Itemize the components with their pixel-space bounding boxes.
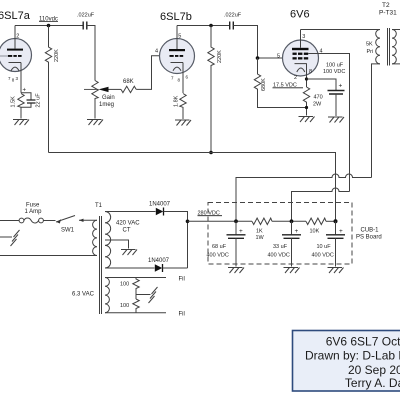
svg-text:5: 5 xyxy=(178,34,181,40)
transformer T2 secondary winding xyxy=(392,30,396,64)
svg-text:400 VDC: 400 VDC xyxy=(207,253,229,259)
svg-text:+: + xyxy=(295,228,299,235)
tube V2 plate lead xyxy=(176,26,178,50)
resistor R5 680K grid leak xyxy=(254,58,306,108)
svg-text:+: + xyxy=(339,228,343,235)
wire plate node 6SL7a xyxy=(15,25,83,27)
potentiometer wiper arrow xyxy=(84,88,99,90)
svg-text:22 uF: 22 uF xyxy=(36,93,42,108)
junction dot cathode xyxy=(305,77,308,80)
svg-text:68K: 68K xyxy=(123,79,134,85)
tube V1 cathode xyxy=(9,63,22,71)
chassis ground AC xyxy=(0,236,12,238)
capacitor C2 22uF bypass xyxy=(21,93,31,119)
svg-text:CUB-1: CUB-1 xyxy=(361,228,380,234)
wire cathode to C4 xyxy=(307,79,337,90)
svg-text:6SL7b: 6SL7b xyxy=(160,11,192,23)
wire heater top Fil xyxy=(105,277,166,279)
svg-text:400 VDC: 400 VDC xyxy=(268,253,290,259)
ground C6 xyxy=(284,268,300,274)
transformer T2 core xyxy=(388,28,390,66)
svg-text:680K: 680K xyxy=(261,78,267,91)
svg-text:Drawn by: D-Lab Electronics: Drawn by: D-Lab Electronics xyxy=(305,349,400,363)
capacitor C5 68uF 400VDC xyxy=(235,221,237,234)
ground C5 xyxy=(228,268,244,274)
svg-text:220K: 220K xyxy=(54,49,60,62)
junction dot V2 plate xyxy=(209,24,213,28)
svg-text:100 VDC: 100 VDC xyxy=(323,69,345,75)
svg-text:6V6: 6V6 xyxy=(290,9,310,21)
resistor R2 68K xyxy=(121,86,136,92)
svg-text:PS Board: PS Board xyxy=(356,235,382,241)
wire 280VDC feed to T2 with hops xyxy=(236,174,372,221)
resistor R3 1.5K cathode V1 xyxy=(18,94,24,108)
resistor R11 10K xyxy=(306,218,326,224)
tube V1 6SL7a envelope xyxy=(0,39,32,72)
svg-text:68 uF: 68 uF xyxy=(212,244,227,250)
svg-text:100: 100 xyxy=(120,303,129,309)
wire C1 to pot xyxy=(87,26,95,81)
transformer T1 core xyxy=(100,216,102,314)
resistor R7 470 2W xyxy=(303,87,309,116)
tube V2 cathode lead xyxy=(182,63,184,94)
tube V3 cathode xyxy=(295,64,307,72)
wire HV top to D1 xyxy=(105,211,156,213)
capacitor C7 10uF 400VDC xyxy=(335,221,337,234)
svg-text:10K: 10K xyxy=(310,229,320,235)
svg-text:T1: T1 xyxy=(95,203,103,209)
tube V3 plate lead xyxy=(300,30,302,48)
tube V2 6SL7b envelope xyxy=(160,39,195,74)
wire humdinger CT xyxy=(136,294,151,296)
svg-text:1N4007: 1N4007 xyxy=(148,258,170,264)
svg-text:P-T31: P-T31 xyxy=(379,10,397,17)
svg-text:2W: 2W xyxy=(313,101,322,107)
tube V3 control grid xyxy=(293,57,309,59)
ground V3 cathode xyxy=(299,117,315,123)
svg-text:6.3 VAC: 6.3 VAC xyxy=(72,292,95,298)
svg-text:100: 100 xyxy=(120,282,129,288)
ground CT xyxy=(121,250,137,256)
ground C7 xyxy=(328,268,344,274)
svg-text:Gain: Gain xyxy=(102,95,115,101)
wire V3 screen to riser xyxy=(308,54,349,192)
tube V1 plate lead xyxy=(14,26,16,49)
transformer T1 heater winding xyxy=(105,278,109,313)
svg-text:+: + xyxy=(23,88,27,94)
wire T1 primary bottom xyxy=(0,255,97,257)
svg-text:2: 2 xyxy=(294,75,297,81)
svg-text:420 VAC: 420 VAC xyxy=(116,221,140,227)
junction dot grid node xyxy=(256,56,260,60)
transformer T1 primary winding xyxy=(93,220,97,255)
svg-text:SW1: SW1 xyxy=(61,228,75,234)
ground pot xyxy=(87,120,103,126)
tube V3 plate xyxy=(292,48,309,50)
svg-text:+: + xyxy=(339,83,343,90)
svg-text:Pri: Pri xyxy=(367,49,374,55)
svg-text:10 uF: 10 uF xyxy=(317,244,332,250)
svg-text:400 VDC: 400 VDC xyxy=(312,253,334,259)
svg-text:2: 2 xyxy=(16,34,19,40)
resistor R1 220K xyxy=(45,26,51,153)
svg-text:1K: 1K xyxy=(256,229,263,235)
svg-text:Fil: Fil xyxy=(179,312,185,318)
svg-text:3: 3 xyxy=(302,34,305,40)
svg-text:470: 470 xyxy=(314,94,323,100)
junction dots PSU rail xyxy=(234,219,238,223)
svg-text:Fil: Fil xyxy=(179,277,185,283)
svg-text:1N4007: 1N4007 xyxy=(149,202,171,208)
wire screen feed to 33uF node with hop xyxy=(292,188,350,221)
svg-text:8: 8 xyxy=(309,69,312,75)
ground V1 cathode xyxy=(13,120,29,126)
wire V3 plate to T2 xyxy=(301,29,381,31)
wire B+ rail PSU xyxy=(188,220,253,222)
wire plate node 6SL7b xyxy=(177,25,230,27)
svg-text:.022uF: .022uF xyxy=(224,13,242,19)
svg-text:100 uF: 100 uF xyxy=(326,62,344,68)
info box xyxy=(293,331,400,392)
svg-text:Fuse: Fuse xyxy=(26,203,40,209)
wire T2 secondary leads xyxy=(392,30,400,64)
tube V1 grid xyxy=(8,55,22,57)
svg-text:1W: 1W xyxy=(256,235,265,241)
wire B+ rail (10uF node to preamp) xyxy=(49,153,336,222)
svg-text:CT: CT xyxy=(123,228,131,234)
transformer T1 HV secondary xyxy=(105,212,111,269)
ground C4 xyxy=(328,117,344,123)
svg-text:T2: T2 xyxy=(382,2,390,9)
svg-text:+: + xyxy=(239,228,243,235)
svg-text:1meg: 1meg xyxy=(99,102,114,108)
junction dot plate node xyxy=(47,24,51,28)
svg-text:Terry A. Davis: Terry A. Davis xyxy=(345,376,400,390)
svg-text:20 Sep 2020: 20 Sep 2020 xyxy=(348,363,400,377)
svg-text:220K: 220K xyxy=(217,50,223,63)
wire HV bottom to D2 xyxy=(105,267,155,269)
svg-text:4: 4 xyxy=(155,49,158,55)
tube V1 cathode lead xyxy=(20,63,22,93)
tube V1 grid lead xyxy=(0,55,8,57)
ground V2 cathode xyxy=(175,120,191,126)
tube V2 plate xyxy=(169,49,185,51)
transformer T2 primary winding xyxy=(376,30,380,64)
svg-text:6SL7a: 6SL7a xyxy=(0,10,31,22)
svg-text:1.5K: 1.5K xyxy=(11,96,17,108)
tube V2 cathode xyxy=(171,63,184,71)
wire HV CT to ground xyxy=(105,240,129,249)
resistor R10 1K 1W xyxy=(252,218,272,224)
wire 68K to V2 grid xyxy=(136,56,169,90)
tube V1 plate xyxy=(7,49,23,51)
resistor R6 1.8K cathode V2 xyxy=(180,94,186,120)
PS board dashed box xyxy=(208,203,352,265)
svg-text:1 Amp: 1 Amp xyxy=(25,209,43,215)
svg-text:5K: 5K xyxy=(366,42,373,48)
svg-text:5: 5 xyxy=(277,53,280,59)
svg-text:.022uF: .022uF xyxy=(77,13,95,19)
capacitor C6 33uF 400VDC xyxy=(291,221,293,234)
junction dot rail at R4 xyxy=(209,151,213,155)
tube V2 grid xyxy=(170,55,184,57)
svg-text:6V6 6SL7 Octal amp: 6V6 6SL7 Octal amp xyxy=(326,335,400,349)
switch SW1 xyxy=(43,220,55,222)
tube V3 screen grid xyxy=(293,53,309,55)
wire heater bottom Fil xyxy=(105,312,166,314)
junction dot diode output xyxy=(186,220,190,224)
svg-text:33 uF: 33 uF xyxy=(273,244,288,250)
wire T2 primary bottom to B+ xyxy=(372,64,381,178)
junction dot 470 bottom xyxy=(305,106,308,109)
wire C3 to 6V6 grid xyxy=(233,26,293,59)
chassis ground humdinger xyxy=(149,287,158,303)
tube V3 6V6 envelope xyxy=(283,40,319,76)
resistor R4 220K (V2 plate) xyxy=(208,26,214,153)
potentiometer Gain 1meg xyxy=(92,81,98,119)
tube V3 cathode lead xyxy=(306,64,308,87)
svg-text:1.8K: 1.8K xyxy=(174,95,180,107)
